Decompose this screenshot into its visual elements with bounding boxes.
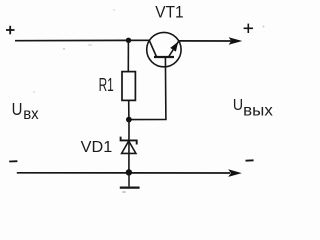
svg-text:U: U xyxy=(12,99,23,119)
ground xyxy=(120,172,140,192)
wire: top rail to R1 xyxy=(127,40,129,71)
zener diode VD1 xyxy=(121,137,137,154)
wire: top rail input segment xyxy=(15,39,149,41)
arrow: output negative terminal xyxy=(228,169,242,177)
junction: bottom rail / VD1 anode / ground xyxy=(126,169,132,175)
wire: VT1 base lead down and left to node xyxy=(130,58,166,120)
minus sign input terminal xyxy=(9,160,17,162)
plus sign output terminal xyxy=(244,24,253,33)
plus sign input terminal xyxy=(6,26,15,35)
svg-text:вых: вых xyxy=(243,102,273,119)
junction: R1 tap on top rail xyxy=(126,38,131,43)
junction: R1 / VD1 / VT1 base node xyxy=(126,117,132,123)
wire: R1 to node xyxy=(128,100,130,119)
resistor R1 xyxy=(122,72,135,101)
minus sign output terminal xyxy=(246,159,254,161)
wire: node to VD1 cathode and through to bottom rail xyxy=(128,120,130,173)
svg-text:VD1: VD1 xyxy=(81,139,113,156)
svg-text:U: U xyxy=(233,97,243,114)
scan specks (noise) xyxy=(33,9,264,92)
wire: bottom rail xyxy=(17,172,230,174)
svg-text:вх: вх xyxy=(23,106,39,123)
wire: top rail output segment xyxy=(179,40,231,42)
svg-text:VT1: VT1 xyxy=(155,3,183,21)
arrow: output positive terminal xyxy=(229,37,243,45)
svg-text:R1: R1 xyxy=(99,74,114,95)
transistor VT1 xyxy=(147,32,181,66)
